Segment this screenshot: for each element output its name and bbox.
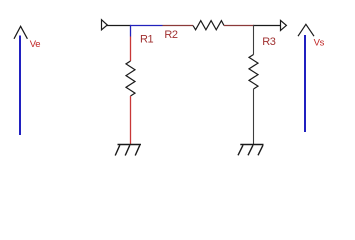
wire blue-to-maroon segment to R2 left bbox=[163, 25, 194, 27]
wire blue-to-red down to R1 top bbox=[130, 37, 132, 62]
input terminal bbox=[102, 20, 108, 30]
wire node B down to R3 top bbox=[253, 25, 255, 55]
resistor R2 bbox=[193, 21, 224, 30]
svg-text:Ve: Ve bbox=[30, 39, 41, 50]
Ve arrow bbox=[14, 26, 27, 135]
Vs arrow bbox=[298, 24, 314, 132]
output terminal bbox=[281, 20, 287, 30]
wire node A down (blue) bbox=[130, 25, 132, 37]
wire node A to R2 (blue) bbox=[130, 25, 163, 27]
ground left bbox=[115, 145, 141, 156]
svg-text:Vs: Vs bbox=[314, 38, 325, 49]
wire input to node A bbox=[107, 25, 131, 27]
svg-text:R1: R1 bbox=[140, 33, 153, 45]
svg-text:R2: R2 bbox=[164, 29, 177, 41]
wire R2 right to node B bbox=[224, 25, 254, 27]
resistor R1 bbox=[126, 61, 135, 96]
ground right bbox=[238, 145, 264, 156]
wire R3 bottom to ground bbox=[253, 89, 255, 145]
wire R1 bottom to ground (red) bbox=[130, 96, 132, 145]
svg-text:R3: R3 bbox=[262, 36, 275, 48]
wire node B to output bbox=[253, 25, 280, 27]
resistor R3 bbox=[249, 55, 258, 90]
